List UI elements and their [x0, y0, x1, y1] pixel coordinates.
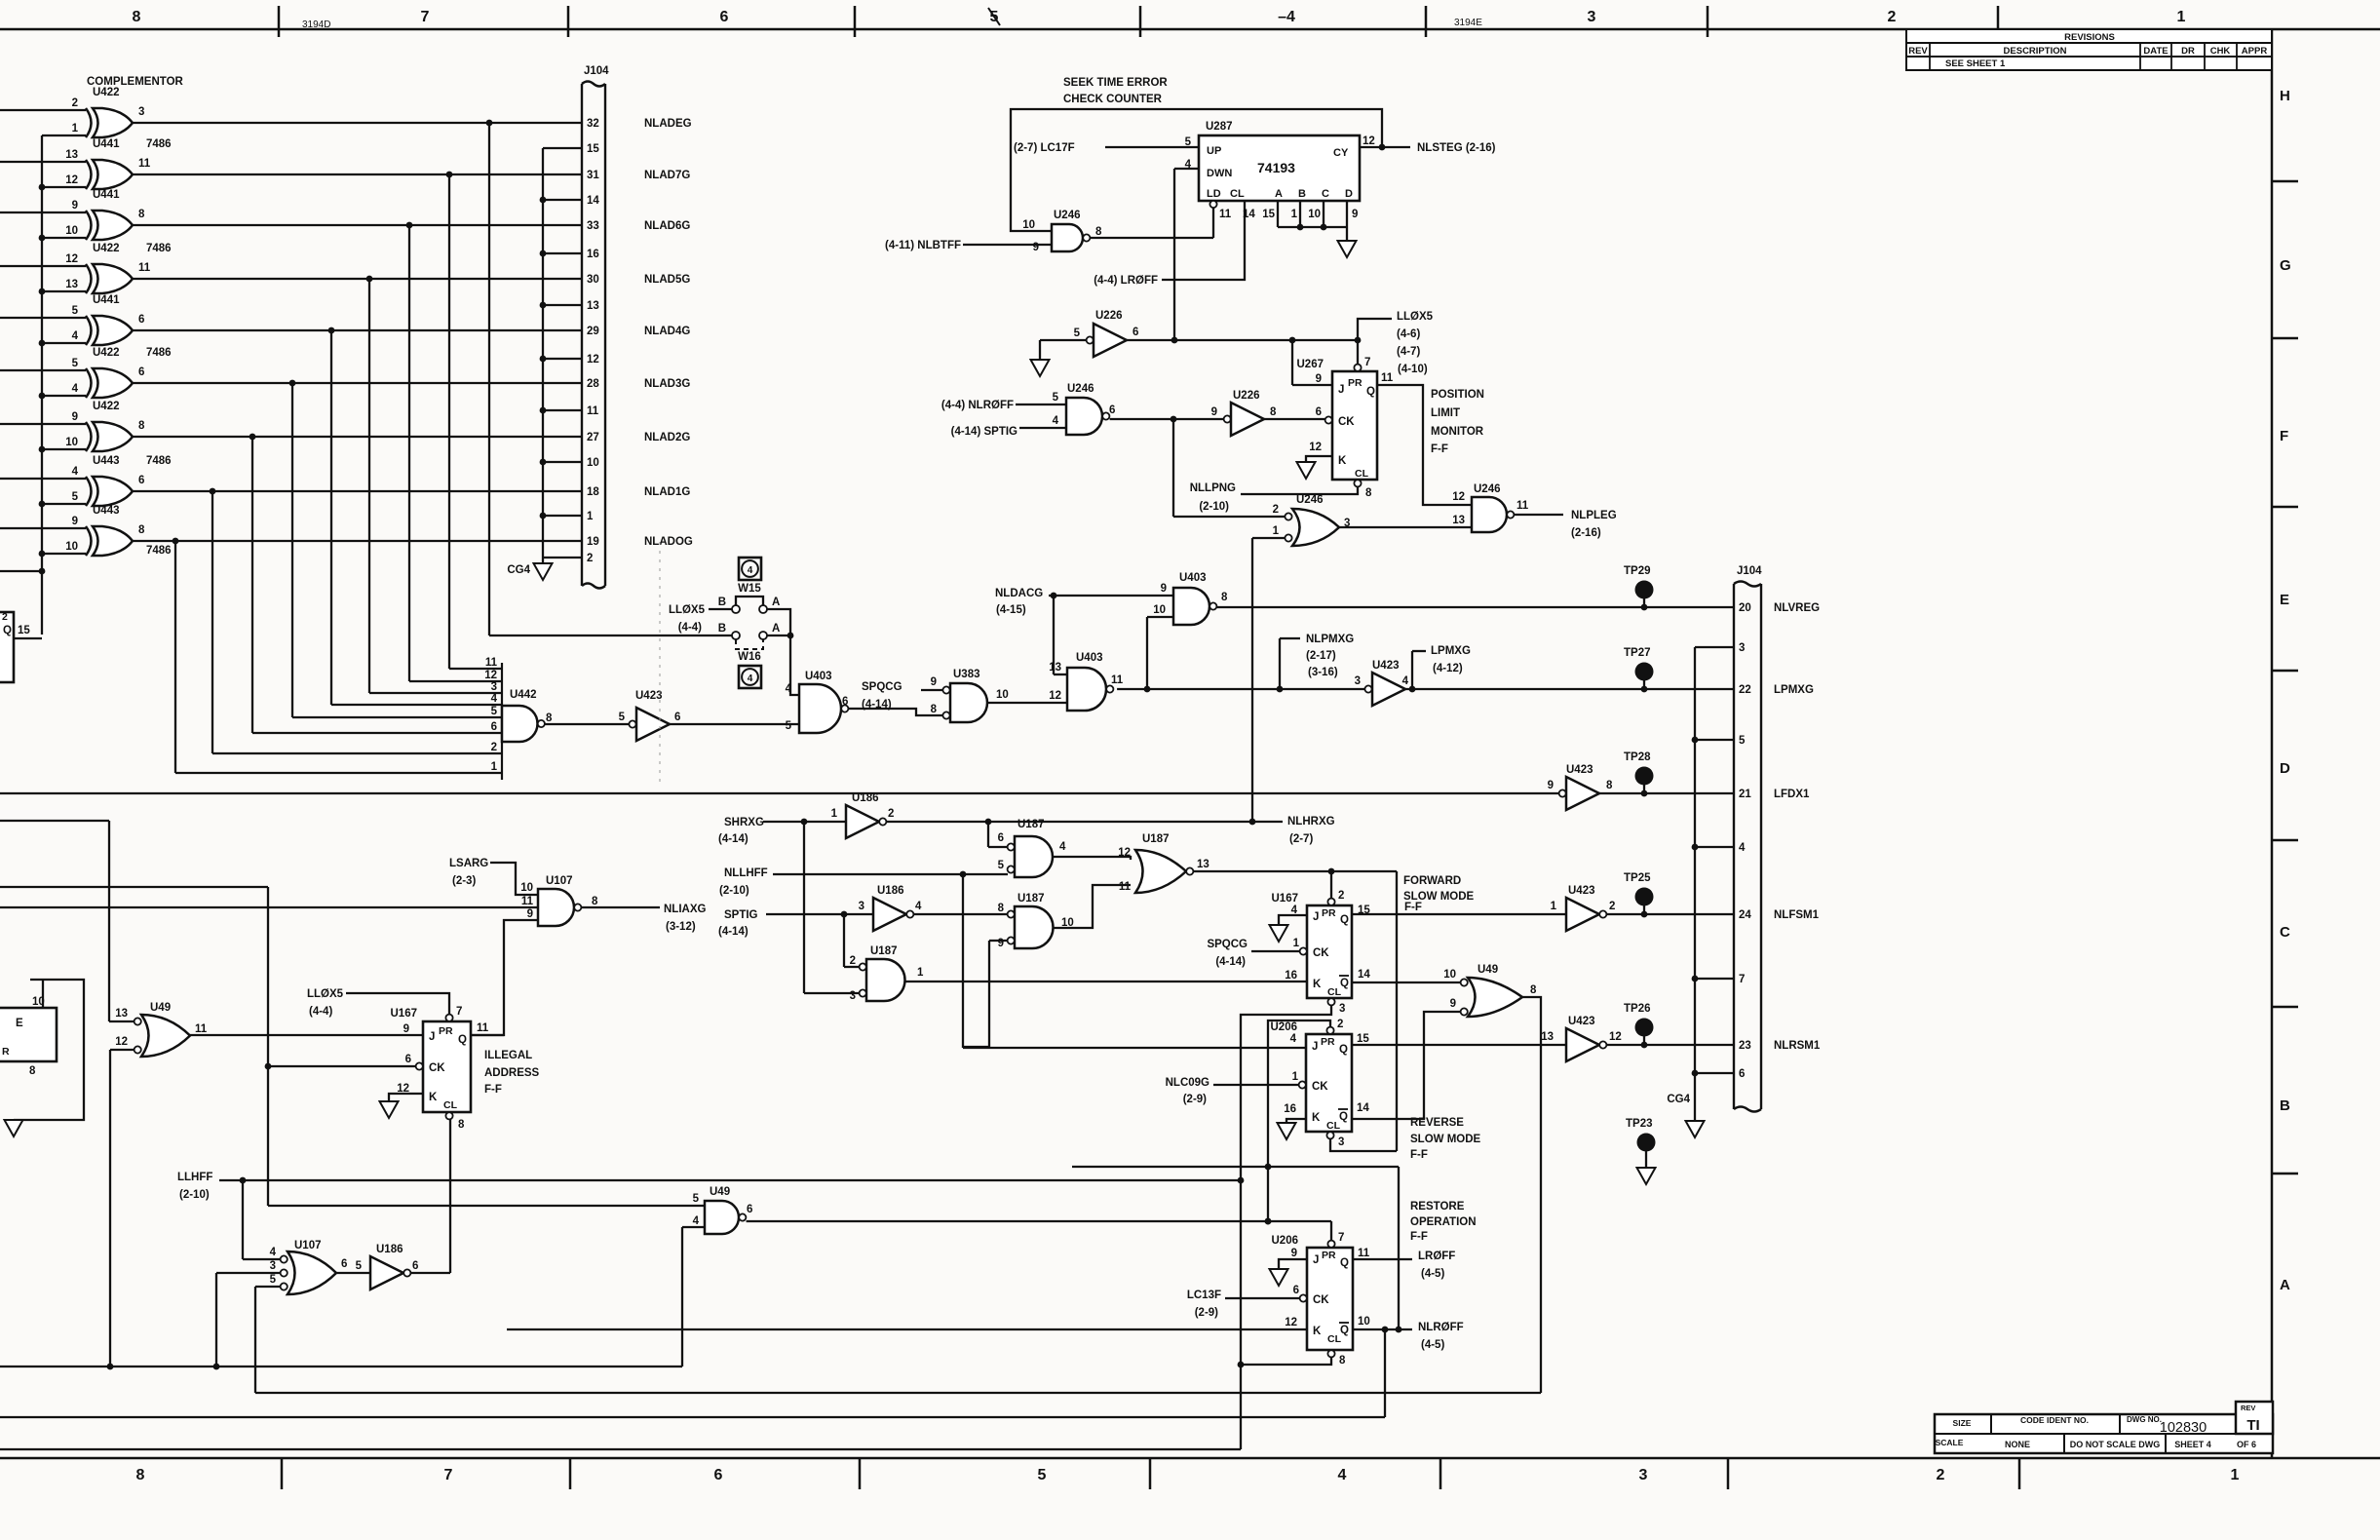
svg-text:U186: U186 — [376, 1244, 403, 1255]
svg-text:1: 1 — [1291, 209, 1298, 220]
wire xor upper inputs from sheet edge — [0, 110, 86, 528]
svg-text:U187: U187 — [870, 945, 898, 957]
svg-text:U443: U443 — [93, 505, 120, 517]
svg-text:LC13F: LC13F — [1187, 1290, 1221, 1301]
svg-text:8: 8 — [458, 1119, 465, 1131]
wire LLHFF line — [219, 1177, 1241, 1184]
test point TP29 — [1624, 565, 1654, 607]
svg-text:U403: U403 — [1076, 652, 1103, 664]
svg-text:10: 10 — [1153, 604, 1166, 616]
svg-text:8: 8 — [29, 1065, 36, 1077]
svg-text:Q: Q — [1339, 1111, 1348, 1123]
wire U287 carry wrap to U246 — [1011, 109, 1382, 231]
svg-text:6: 6 — [674, 712, 680, 723]
svg-text:30: 30 — [587, 274, 599, 286]
wire U206res CL wrap — [1241, 1358, 1331, 1365]
svg-text:J: J — [1313, 911, 1319, 923]
svg-text:3: 3 — [1338, 1136, 1344, 1148]
svg-text:10: 10 — [1358, 1316, 1370, 1328]
svg-text:10: 10 — [996, 689, 1009, 701]
svg-text:7486: 7486 — [146, 545, 172, 557]
svg-text:13: 13 — [1541, 1031, 1554, 1043]
svg-text:CHECK COUNTER: CHECK COUNTER — [1063, 94, 1163, 105]
svg-text:J: J — [429, 1031, 435, 1043]
svg-text:REV: REV — [2241, 1404, 2255, 1412]
label SPQCG (4-14) at CK — [1207, 939, 1248, 968]
svg-text:6: 6 — [998, 832, 1004, 844]
flip-flop U167 (forward slow mode) — [1272, 890, 1371, 1015]
svg-text:3: 3 — [850, 990, 856, 1002]
svg-text:6: 6 — [1316, 406, 1322, 418]
svg-text:NLRØFF: NLRØFF — [1418, 1322, 1464, 1333]
wire SHRXG in — [763, 819, 860, 993]
svg-text:LPMXG: LPMXG — [1774, 684, 1814, 696]
wire SPTIG in — [766, 911, 873, 967]
inverter U226 (LLOX5 driver) — [1074, 310, 1139, 357]
inverter U423 (address decode) — [619, 690, 681, 741]
svg-text:10: 10 — [1022, 219, 1035, 231]
svg-text:9: 9 — [1033, 242, 1039, 253]
svg-text:C: C — [1322, 188, 1329, 200]
svg-text:14: 14 — [1358, 969, 1370, 981]
svg-text:LLØX5: LLØX5 — [669, 604, 706, 616]
wire U167 Q to U423 row24 — [1352, 913, 1566, 915]
svg-text:SEE SHEET 1: SEE SHEET 1 — [1945, 58, 2006, 69]
svg-text:U423: U423 — [1568, 885, 1595, 897]
svg-text:TP23: TP23 — [1626, 1118, 1653, 1130]
wire U187B out to U187C pin11 — [1054, 885, 1132, 928]
svg-text:NLAD3G: NLAD3G — [644, 378, 690, 390]
svg-text:8: 8 — [133, 9, 141, 25]
svg-text:6: 6 — [138, 475, 144, 486]
svg-text:2: 2 — [587, 553, 593, 564]
svg-text:8: 8 — [138, 420, 145, 432]
wire LSARG to U107 pin10 — [490, 863, 538, 895]
nand gate U107 (illegal address out) — [520, 875, 598, 926]
svg-text:16: 16 — [1285, 970, 1297, 982]
inverter U226 (clock) — [1211, 390, 1277, 436]
svg-text:9: 9 — [1316, 373, 1322, 385]
svg-text:U206: U206 — [1272, 1235, 1299, 1247]
svg-text:5: 5 — [270, 1274, 277, 1286]
wire U167ill K to ground — [389, 1094, 423, 1101]
fold mark (dashed) — [659, 542, 661, 786]
svg-text:U186: U186 — [877, 885, 904, 897]
svg-text:U107: U107 — [546, 875, 573, 887]
svg-text:NLHRXG: NLHRXG — [1287, 816, 1335, 828]
xor gate U422 (complementor bit 3) — [65, 243, 171, 293]
svg-text:F: F — [2280, 428, 2288, 444]
connector J104 (right) — [1734, 565, 1762, 1112]
wire restore K long line — [507, 1328, 1307, 1330]
svg-text:9: 9 — [1352, 209, 1358, 220]
svg-text:U226: U226 — [1095, 310, 1123, 322]
svg-text:6: 6 — [138, 366, 144, 378]
svg-text:(2-9): (2-9) — [1195, 1307, 1218, 1319]
svg-text:U441: U441 — [93, 189, 120, 201]
right zone letters — [2280, 88, 2291, 1293]
svg-text:21: 21 — [1739, 789, 1751, 800]
svg-text:1: 1 — [1293, 938, 1300, 949]
svg-text:4: 4 — [915, 901, 922, 912]
wire LROFF to U287 CL — [1162, 201, 1245, 280]
label NLPMXG (2-17)(3-16) — [1306, 634, 1354, 678]
ground CG4 at J104-left — [507, 563, 552, 580]
wire U49B out to PR net — [747, 1218, 1331, 1241]
svg-text:(4-4): (4-4) — [309, 1006, 332, 1018]
svg-text:NLRSM1: NLRSM1 — [1774, 1040, 1821, 1052]
svg-text:U246: U246 — [1054, 210, 1081, 221]
svg-text:13: 13 — [115, 1008, 128, 1020]
svg-text:Q: Q — [1340, 914, 1349, 926]
svg-text:13: 13 — [1049, 662, 1061, 674]
wire U206res J to ground — [1279, 1259, 1307, 1269]
svg-text:OPERATION: OPERATION — [1410, 1216, 1477, 1228]
wire U187D out to U167 K — [905, 981, 1308, 982]
svg-text:H: H — [2280, 88, 2290, 104]
svg-text:B: B — [718, 597, 726, 608]
svg-text:2: 2 — [888, 808, 894, 820]
wire LPMXG row to J104 pin22 — [1405, 651, 1734, 692]
svg-text:5: 5 — [72, 358, 79, 369]
wire NLBTFF to U246 pin9 — [963, 244, 1052, 246]
svg-text:18: 18 — [587, 486, 599, 498]
wire U267 CL to NLLPNG — [1241, 487, 1358, 495]
svg-text:8: 8 — [592, 896, 598, 907]
xor gate U443 (complementor bit 7) — [72, 455, 172, 506]
svg-text:8: 8 — [136, 1467, 145, 1483]
and gate U187 (K drive) — [850, 945, 924, 1002]
svg-text:CL: CL — [1230, 188, 1245, 200]
border top line — [0, 28, 2380, 31]
svg-text:J: J — [1312, 1041, 1318, 1053]
svg-text:19: 19 — [587, 536, 599, 548]
ground CG4 at J104-right — [1667, 1094, 1704, 1137]
test point TP25 — [1624, 872, 1654, 914]
svg-text:C: C — [2280, 924, 2290, 941]
svg-text:20: 20 — [1739, 602, 1751, 614]
label (4-4) NLROFF — [941, 400, 1014, 411]
svg-text:W15: W15 — [738, 583, 761, 595]
svg-text:3: 3 — [1339, 1003, 1345, 1015]
sheet microfilm code 3194E — [1454, 18, 1482, 28]
or gate U49 (slow mode combine) — [1443, 964, 1537, 1017]
svg-text:U383: U383 — [953, 669, 980, 680]
svg-text:11: 11 — [1111, 674, 1124, 686]
wire NLVREG row to J104 pin20 — [1217, 604, 1734, 611]
svg-text:A: A — [1275, 188, 1283, 200]
wire CK line to illegal FF — [266, 1065, 415, 1067]
label RESTORE OPERATION F-F — [1410, 1201, 1477, 1243]
svg-text:LLØX5: LLØX5 — [1397, 311, 1434, 323]
svg-text:12: 12 — [1118, 847, 1131, 859]
svg-text:A: A — [772, 597, 780, 608]
label LLOX5 (4-6)(4-7)(4-10) — [1397, 311, 1434, 375]
jumper W15 — [718, 558, 781, 613]
svg-text:10: 10 — [65, 225, 78, 237]
svg-text:11: 11 — [587, 405, 599, 417]
svg-text:CK: CK — [429, 1062, 445, 1074]
svg-text:U187: U187 — [1017, 893, 1045, 905]
border bottom line — [0, 1457, 2380, 1460]
label NLHRXG (2-7) — [1287, 816, 1335, 845]
svg-text:9: 9 — [72, 516, 78, 527]
svg-text:SCALE: SCALE — [1936, 1438, 1964, 1447]
wire CK net to U246 pin2 — [1173, 516, 1285, 518]
svg-text:9: 9 — [1450, 998, 1456, 1010]
svg-text:2: 2 — [491, 742, 497, 753]
wire U206rev Q to U423 row23 — [1352, 1044, 1566, 1046]
svg-text:U49: U49 — [1478, 964, 1498, 976]
nand gate U403 (mode select B) — [1049, 652, 1124, 711]
svg-text:SHEET 4: SHEET 4 — [2174, 1440, 2211, 1449]
svg-text:K: K — [1338, 455, 1347, 467]
wire U206rev CL from LROFF rail — [1330, 1139, 1397, 1151]
label SPQCG (4-14) — [862, 681, 902, 711]
svg-text:2: 2 — [72, 97, 78, 109]
wire LLOX5 to U167 PR — [346, 993, 449, 1014]
svg-text:4: 4 — [693, 1215, 700, 1227]
svg-text:28: 28 — [587, 378, 599, 390]
svg-text:11: 11 — [1219, 209, 1232, 220]
svg-text:F-F: F-F — [1410, 1149, 1428, 1161]
svg-text:Q: Q — [1340, 978, 1349, 989]
ground at U206rev K — [1278, 1123, 1296, 1139]
inverter U186 (SPTIG) — [859, 885, 922, 931]
svg-text:NLC09G: NLC09G — [1166, 1077, 1209, 1089]
wire U246 out to U226/U403 — [1110, 416, 1224, 517]
svg-text:U441: U441 — [93, 138, 120, 150]
svg-text:(4-4) LRØFF: (4-4) LRØFF — [1094, 275, 1158, 287]
svg-text:11: 11 — [1358, 1248, 1370, 1259]
svg-text:K: K — [429, 1092, 438, 1103]
wire U403A out to U383 pin8 — [849, 709, 942, 715]
svg-text:2: 2 — [2, 611, 8, 623]
nand gate U403 (mode select A) — [786, 671, 849, 733]
wire SPQCG stub to U383 pin9 — [921, 689, 942, 691]
svg-text:–4: –4 — [1278, 9, 1295, 25]
svg-text:2: 2 — [1338, 890, 1344, 902]
label FORWARD SLOW MODE F-F — [1403, 875, 1475, 913]
svg-text:(2-9): (2-9) — [1183, 1094, 1207, 1105]
svg-text:NLAD2G: NLAD2G — [644, 432, 690, 443]
svg-text:DESCRIPTION: DESCRIPTION — [2004, 46, 2067, 57]
svg-text:13: 13 — [1197, 859, 1209, 870]
wire NLROFF out — [1353, 1327, 1412, 1333]
svg-text:4: 4 — [72, 466, 79, 478]
connector J104 (left) — [582, 65, 609, 589]
svg-text:J: J — [1338, 384, 1344, 396]
wire U49 out to bottom rail — [1522, 997, 1541, 1393]
wire U49B pin4 line — [682, 1227, 705, 1367]
svg-text:13: 13 — [1452, 515, 1465, 526]
svg-text:4: 4 — [1290, 1033, 1297, 1045]
wire J104-left spare-pin ground rail — [540, 148, 582, 563]
svg-text:13: 13 — [587, 300, 599, 312]
wire W15/W16 A to U403 — [767, 609, 799, 695]
or gate U49 (illegal address J) — [115, 1002, 208, 1057]
label NLC09G (2-9) — [1166, 1077, 1209, 1105]
svg-text:CODE IDENT NO.: CODE IDENT NO. — [2020, 1415, 2089, 1425]
svg-text:12: 12 — [65, 174, 78, 186]
svg-text:3: 3 — [138, 106, 144, 118]
svg-text:10: 10 — [1443, 969, 1456, 981]
svg-text:27: 27 — [587, 432, 599, 443]
svg-text:5: 5 — [693, 1193, 700, 1205]
svg-text:APPR: APPR — [2242, 46, 2268, 57]
svg-text:8: 8 — [931, 704, 938, 715]
svg-text:U423: U423 — [1568, 1016, 1595, 1027]
svg-text:12: 12 — [1452, 491, 1465, 503]
svg-text:J104: J104 — [1737, 565, 1762, 577]
svg-text:TP26: TP26 — [1624, 1003, 1651, 1015]
svg-text:11: 11 — [521, 896, 534, 907]
svg-text:ILLEGAL: ILLEGAL — [484, 1050, 532, 1061]
or gate U187 (mode combine) — [1118, 833, 1209, 893]
test point TP23 — [1626, 1118, 1656, 1168]
svg-text:DR: DR — [2181, 46, 2195, 57]
svg-text:8: 8 — [1339, 1355, 1346, 1367]
wire U167 CL wrap — [1238, 1006, 1331, 1450]
svg-text:7: 7 — [1338, 1232, 1344, 1244]
svg-text:U187: U187 — [1142, 833, 1170, 845]
svg-text:6: 6 — [1739, 1068, 1745, 1080]
pin 14 label at CL — [1243, 209, 1255, 220]
svg-text:7486: 7486 — [146, 138, 172, 150]
svg-text:2: 2 — [1888, 9, 1897, 25]
svg-text:CK: CK — [1313, 1294, 1329, 1306]
svg-text:(2-17): (2-17) — [1306, 650, 1336, 662]
svg-text:11: 11 — [195, 1023, 208, 1035]
svg-text:J104: J104 — [584, 65, 609, 77]
svg-text:15: 15 — [1262, 209, 1275, 220]
svg-text:PR: PR — [1348, 377, 1363, 389]
xor gate U441 (complementor bit 1) — [65, 138, 171, 189]
label (2-7) LC17F — [1014, 142, 1075, 154]
label NLLPNG (2-10) — [1190, 482, 1236, 513]
svg-text:TP25: TP25 — [1624, 872, 1651, 884]
svg-text:6: 6 — [720, 9, 729, 25]
svg-text:8: 8 — [998, 903, 1005, 914]
svg-text:DO NOT SCALE DWG: DO NOT SCALE DWG — [2070, 1440, 2161, 1449]
svg-text:U422: U422 — [93, 243, 120, 254]
label SEEK TIME ERROR CHECK COUNTER — [1063, 77, 1168, 105]
wire U287 ABCD to ground — [1262, 201, 1358, 241]
svg-text:U187: U187 — [1017, 819, 1045, 830]
bottom zone tick marks — [282, 1458, 2019, 1489]
ground at U287 D input — [1338, 241, 1357, 257]
partial flip-flop Q15 at left edge (offsheet) — [0, 611, 30, 682]
wire NLADEG drop to W16 — [486, 120, 493, 635]
svg-text:Q: Q — [1340, 1325, 1349, 1336]
svg-text:6: 6 — [1132, 327, 1138, 338]
svg-text:8: 8 — [1221, 592, 1228, 603]
inverter U186 (SHRXG) — [831, 792, 895, 838]
svg-text:33: 33 — [587, 220, 599, 232]
svg-text:6: 6 — [747, 1204, 752, 1215]
svg-text:DATE: DATE — [2143, 46, 2168, 57]
svg-text:TP28: TP28 — [1624, 751, 1651, 763]
svg-text:U206: U206 — [1271, 1021, 1298, 1033]
svg-text:W16: W16 — [738, 651, 761, 663]
svg-text:B: B — [718, 623, 726, 635]
wire illegal Q out — [471, 1034, 504, 1036]
svg-text:(4-4) NLRØFF: (4-4) NLRØFF — [941, 400, 1014, 411]
wire U49M out to U167 J — [190, 1034, 423, 1036]
svg-text:1: 1 — [1273, 525, 1280, 537]
svg-text:9: 9 — [72, 411, 78, 423]
svg-text:U423: U423 — [635, 690, 663, 702]
wire NLROFF preset link — [1072, 1164, 1399, 1329]
svg-text:5: 5 — [1038, 1467, 1047, 1483]
svg-text:7: 7 — [444, 1467, 453, 1483]
svg-text:6: 6 — [1293, 1285, 1299, 1296]
svg-text:12: 12 — [65, 253, 78, 265]
and gate U187 (hold A) — [998, 819, 1066, 877]
wire U49B pin5 line — [268, 887, 705, 1206]
svg-text:3: 3 — [1739, 642, 1745, 654]
label COMPLEMENTOR — [87, 76, 184, 88]
svg-text:SHRXG: SHRXG — [724, 817, 764, 828]
svg-text:NLFSM1: NLFSM1 — [1774, 909, 1820, 921]
svg-text:(2-3): (2-3) — [452, 875, 476, 887]
svg-text:LIMIT: LIMIT — [1431, 407, 1460, 419]
inverter U423 (NLFSM1) — [1551, 885, 1616, 931]
svg-text:9: 9 — [527, 908, 533, 920]
svg-text:1: 1 — [917, 967, 924, 979]
svg-text:13: 13 — [65, 149, 78, 161]
svg-text:U403: U403 — [805, 671, 832, 682]
svg-text:12: 12 — [1363, 135, 1375, 147]
svg-text:10: 10 — [1308, 209, 1321, 220]
svg-text:K: K — [1312, 1112, 1321, 1124]
wire U442 out to U423 — [545, 723, 633, 725]
svg-text:(3-16): (3-16) — [1308, 667, 1338, 678]
wire U187A out to U187C — [1053, 857, 1131, 860]
svg-text:(2-16): (2-16) — [1571, 527, 1601, 539]
svg-text:6: 6 — [1109, 404, 1115, 416]
wire bottom line A (y1402) — [0, 1366, 682, 1367]
svg-text:9: 9 — [931, 676, 937, 688]
label (4-4) LROFF — [1094, 275, 1158, 287]
svg-text:LD: LD — [1207, 188, 1221, 200]
svg-text:SPTIG: SPTIG — [724, 909, 758, 921]
svg-text:11: 11 — [1381, 372, 1394, 384]
svg-text:12: 12 — [587, 354, 599, 366]
svg-text:1: 1 — [2231, 1467, 2240, 1483]
svg-text:8: 8 — [1606, 780, 1613, 791]
ground at U226 input — [1031, 360, 1050, 376]
top zone numbers — [133, 8, 2186, 25]
svg-text:3: 3 — [1639, 1467, 1648, 1483]
svg-text:8: 8 — [138, 524, 145, 536]
svg-text:(2-7) LC17F: (2-7) LC17F — [1014, 142, 1075, 154]
wire NLHRXG net — [887, 819, 1284, 847]
svg-text:15: 15 — [587, 143, 599, 155]
svg-text:U246: U246 — [1296, 494, 1324, 506]
svg-text:3194D: 3194D — [302, 19, 330, 30]
svg-text:4: 4 — [491, 693, 498, 705]
svg-text:9: 9 — [72, 200, 78, 212]
svg-text:U403: U403 — [1179, 572, 1207, 584]
xor gate U441 (complementor bit 2) — [65, 189, 145, 240]
svg-text:4: 4 — [270, 1247, 277, 1258]
label SHRXG (4-14) — [718, 817, 764, 845]
ground at U206res J — [1270, 1269, 1288, 1286]
wire LC13F to U206res CK — [1225, 1297, 1300, 1299]
flip-flop U206 (restore operation) — [1272, 1232, 1370, 1367]
svg-text:8: 8 — [1365, 487, 1372, 499]
